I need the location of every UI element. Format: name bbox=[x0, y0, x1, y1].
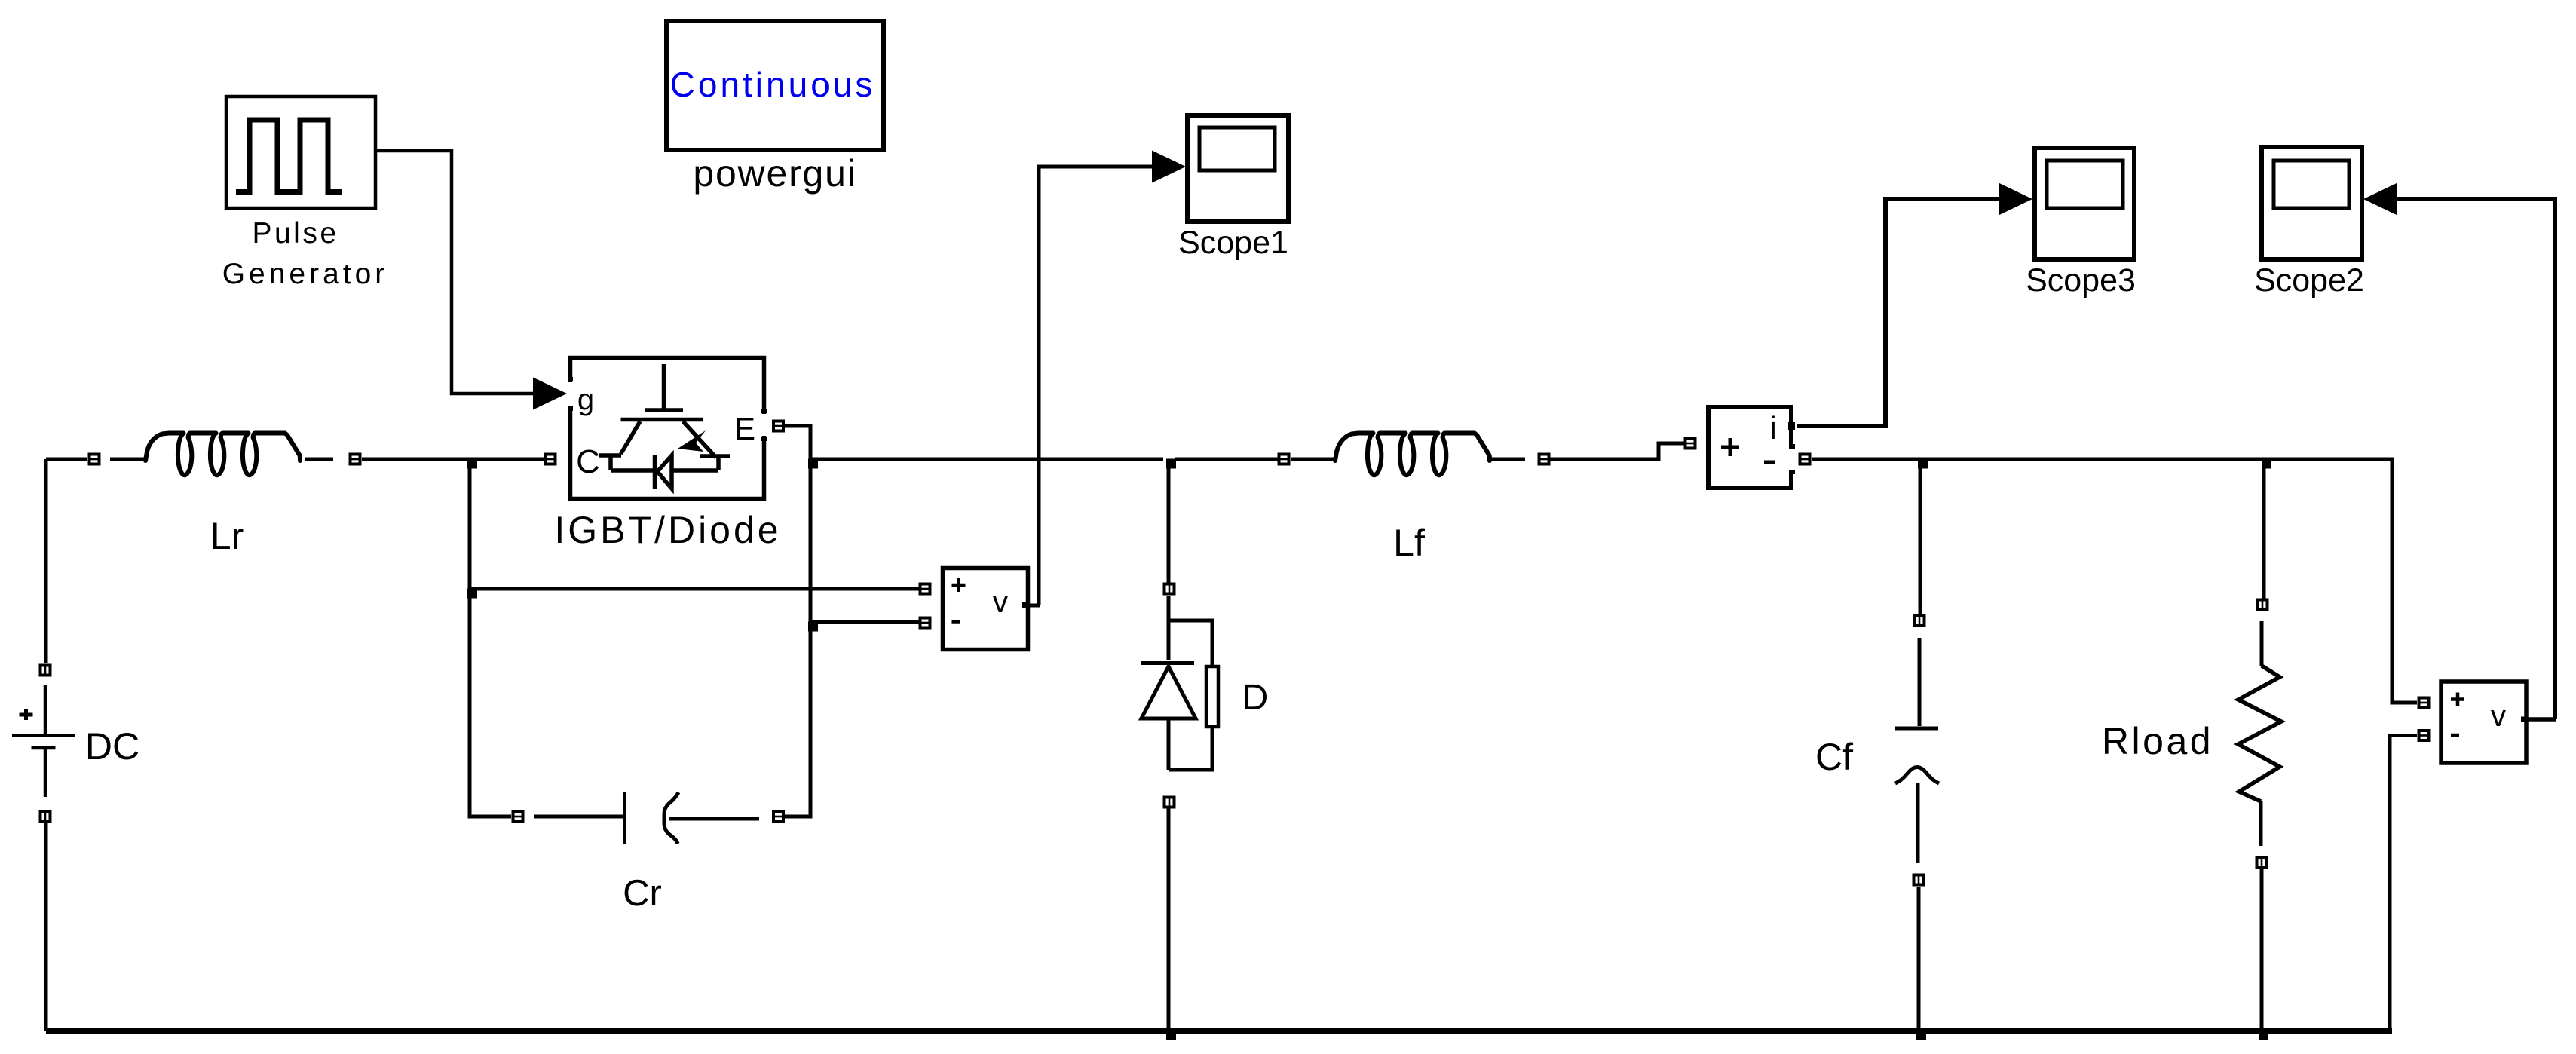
node V1+ tap junction bbox=[467, 589, 477, 599]
svg-text:Lf: Lf bbox=[1393, 522, 1425, 564]
svg-text:g: g bbox=[577, 383, 594, 416]
port diode cathode-side terminal bbox=[1163, 796, 1176, 809]
node Cf tap junction bbox=[1918, 459, 1928, 469]
wire Lf left stub bbox=[1291, 458, 1334, 461]
arrowhead into Scope3 bbox=[1999, 183, 2032, 216]
svg-text:powergui: powergui bbox=[693, 152, 856, 195]
scope3 block bbox=[2035, 148, 2134, 259]
port V1 - input bbox=[919, 617, 932, 630]
wire V2 - input down to ground bus bbox=[2390, 736, 2417, 1031]
svg-text:Scope1: Scope1 bbox=[1178, 225, 1288, 261]
i block plus sign bbox=[1721, 438, 1739, 456]
node diode tap junction bbox=[1166, 459, 1176, 469]
capacitor Cf symbol bbox=[1895, 728, 1939, 783]
wire IGBT E down to Cr right port bbox=[785, 426, 810, 817]
DC plus sign bbox=[20, 709, 33, 720]
svg-text:Pulse: Pulse bbox=[252, 217, 338, 250]
port current measurement + input bbox=[1684, 437, 1697, 450]
wire Lf to current measurement + input bbox=[1548, 443, 1684, 459]
wire V2 output to Scope2 bbox=[2397, 199, 2555, 719]
svg-text:i: i bbox=[1769, 410, 1776, 446]
svg-text:Lr: Lr bbox=[210, 515, 244, 557]
svg-text:Scope2: Scope2 bbox=[2254, 262, 2364, 299]
wire C node down to Cr left port bbox=[470, 459, 511, 817]
node bus-C junction bbox=[467, 459, 477, 469]
port Lf right terminal bbox=[1538, 453, 1551, 466]
current measurement block bbox=[1708, 407, 1791, 488]
scope2 block bbox=[2262, 147, 2362, 259]
svg-text:Rload: Rload bbox=[2102, 720, 2213, 762]
node Cf-ground junction bbox=[1916, 1031, 1926, 1040]
svg-text:D: D bbox=[1242, 678, 1269, 718]
port Lr left terminal bbox=[88, 453, 101, 466]
node Rload tap junction bbox=[2262, 459, 2271, 469]
port IGBT E terminal bbox=[772, 420, 785, 433]
V2 plus sign bbox=[2451, 693, 2464, 706]
wire bottom ground bus bbox=[46, 1028, 2392, 1034]
port IGBT C terminal bbox=[544, 453, 557, 466]
wire left rail top segment bbox=[44, 459, 48, 663]
V1 output stub bbox=[1025, 604, 1040, 608]
svg-text:v: v bbox=[2491, 700, 2506, 733]
V1 plus sign bbox=[952, 578, 966, 592]
inductor Lf coil bbox=[1335, 434, 1490, 476]
IGBT symbol icon bbox=[599, 364, 730, 489]
port Lr right terminal bbox=[349, 453, 362, 466]
port Cf top terminal bbox=[1913, 614, 1926, 627]
port Rload top terminal bbox=[2256, 599, 2269, 611]
voltage measurement V1 block bbox=[943, 568, 1028, 650]
svg-text:v: v bbox=[993, 586, 1008, 619]
V1 minus sign bbox=[952, 620, 960, 624]
node V1- tap junction bbox=[808, 622, 818, 632]
wire Rload top port to resistor bbox=[2260, 621, 2264, 666]
wire diode node to Lf bbox=[1175, 458, 1279, 461]
wire bus down to diode top port bbox=[1167, 459, 1171, 583]
arrowhead into IGBT g input bbox=[533, 378, 567, 410]
node bus-E junction bbox=[808, 459, 818, 469]
node Rload-ground junction bbox=[2259, 1031, 2268, 1040]
wire V1 output to Scope1 bbox=[1039, 167, 1154, 605]
i block output tab bbox=[1788, 422, 1795, 430]
wire diode bottom port to ground bus bbox=[1167, 808, 1171, 1031]
wire Pulse Generator to IGBT gate bbox=[375, 151, 537, 394]
port V2 + input bbox=[2418, 697, 2431, 709]
scope1 block bbox=[1187, 115, 1288, 222]
svg-text:C: C bbox=[576, 443, 600, 480]
wire bus down to Cf top port bbox=[1919, 459, 1922, 614]
wire Lf right stub bbox=[1491, 458, 1525, 461]
port V1 + input bbox=[919, 583, 932, 596]
pulse generator icon waveform bbox=[236, 120, 342, 192]
IGBT emitter arrowhead bbox=[678, 430, 706, 452]
port Cr left terminal bbox=[512, 810, 525, 823]
svg-text:E: E bbox=[734, 411, 755, 446]
arrowhead into Scope2 bbox=[2363, 183, 2397, 216]
port current measurement - output bbox=[1799, 453, 1812, 466]
wire resistor bottom stub bbox=[2259, 801, 2263, 846]
powergui block bbox=[666, 21, 884, 150]
V2 output tab bbox=[2521, 717, 2526, 722]
wire Lr right stub bbox=[305, 458, 333, 461]
pulse generator block bbox=[226, 97, 375, 208]
wire bus down to Rload top port bbox=[2262, 459, 2266, 599]
V2 output stub bbox=[2524, 717, 2556, 722]
port diode anode-side terminal bbox=[1163, 583, 1176, 596]
wire DC port to plate bbox=[44, 685, 47, 734]
wire current measurement to Scope3 bbox=[1797, 199, 2000, 426]
svg-text:Cr: Cr bbox=[623, 873, 662, 914]
svg-text:IGBT/Diode: IGBT/Diode bbox=[554, 509, 781, 551]
V2 minus sign bbox=[2451, 734, 2459, 737]
wire Cf plate down bbox=[1916, 783, 1920, 863]
capacitor Cr symbol bbox=[534, 792, 759, 844]
arrowhead into Scope1 bbox=[1152, 151, 1186, 183]
svg-text:Continuous: Continuous bbox=[670, 65, 876, 104]
wire Cf bottom port to ground bus bbox=[1917, 887, 1921, 1031]
V1 output tab bbox=[1022, 602, 1028, 608]
wire bus E node to diode bbox=[810, 458, 1163, 461]
svg-text:Generator: Generator bbox=[222, 258, 389, 290]
i block - port nubs bbox=[1789, 446, 1795, 472]
wire Lr left stub bbox=[110, 458, 144, 461]
wire C node to V1 + input bbox=[470, 587, 919, 591]
wire diode top port to cathode bar bbox=[1167, 596, 1171, 660]
wire DC plate to bottom port bbox=[44, 749, 47, 797]
port Cr right terminal bbox=[772, 810, 785, 823]
inductor Lr coil bbox=[145, 434, 300, 476]
wire DC - down to ground bus bbox=[44, 823, 48, 1031]
port DC + terminal bbox=[39, 664, 52, 677]
diode D symbol bbox=[1141, 620, 1218, 770]
wire E node to V1 - input bbox=[810, 620, 919, 624]
wire Cf top port to plate bbox=[1918, 638, 1922, 726]
DC source battery symbol bbox=[12, 736, 75, 748]
IGBT E port nubs on right edge bbox=[761, 411, 767, 439]
wire current measurement - to bus and V2 + bbox=[1812, 459, 2417, 703]
port Lf left terminal bbox=[1278, 453, 1291, 466]
port Cf bottom terminal bbox=[1913, 874, 1925, 887]
port Rload bottom terminal bbox=[2256, 856, 2268, 869]
svg-text:Cf: Cf bbox=[1815, 736, 1853, 778]
voltage measurement V2 block bbox=[2441, 682, 2526, 763]
wire DC+ rail to Lr bbox=[46, 458, 87, 461]
IGBT gate port nubs on left edge bbox=[568, 379, 573, 409]
port DC - terminal bbox=[39, 810, 52, 823]
wire Rload bottom port to ground bus bbox=[2260, 869, 2264, 1031]
svg-text:DC: DC bbox=[85, 725, 139, 768]
node diode-ground junction bbox=[1166, 1031, 1176, 1040]
resistor Rload zigzag bbox=[2238, 666, 2281, 801]
wire Lr to IGBT C port bbox=[362, 458, 544, 461]
port V2 - input bbox=[2418, 729, 2431, 742]
svg-text:Scope3: Scope3 bbox=[2026, 262, 2136, 299]
i block minus sign bbox=[1764, 461, 1775, 464]
IGBT/Diode block outline bbox=[571, 358, 764, 499]
